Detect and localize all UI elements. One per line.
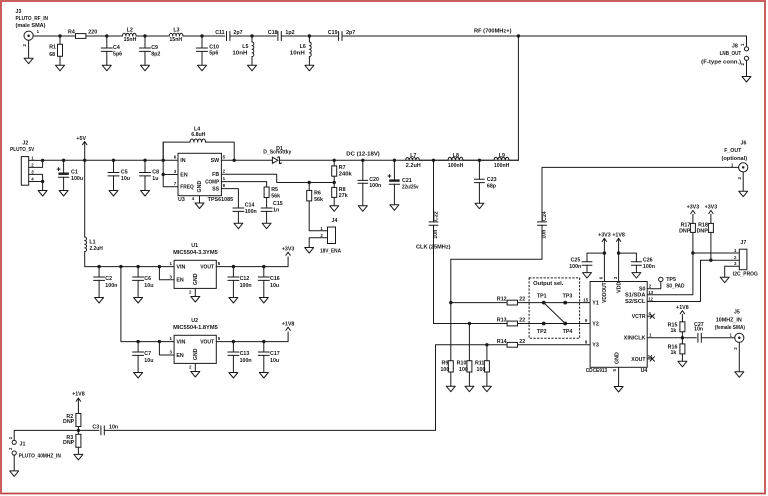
node junction +5V / L1 [83, 159, 86, 162]
svg-text:CLK (25MHz): CLK (25MHz) [416, 245, 451, 251]
svg-text:(female SMA): (female SMA) [715, 325, 745, 331]
svg-text:10n: 10n [109, 424, 118, 430]
wire S2/SCL to J7 pin2 [647, 260, 739, 301]
ground of C21 [390, 205, 399, 211]
connector J5 10MHZ_IN (female SMA) [735, 333, 744, 342]
node junction U2 EN tap [158, 340, 161, 343]
node junction C1 [62, 159, 65, 162]
svg-text:VCTR: VCTR [632, 314, 646, 320]
svg-text:5p6: 5p6 [209, 51, 218, 57]
svg-text:100nH: 100nH [448, 163, 464, 169]
ground of R1 [56, 65, 65, 71]
capacitor C10 5p6 [201, 36, 203, 48]
ground of U2 [191, 363, 200, 377]
capacitor C27 10n (series) [698, 333, 701, 342]
node junction C17 [262, 340, 265, 343]
svg-text:100nH: 100nH [494, 163, 510, 169]
svg-text:C5: C5 [121, 169, 128, 175]
ground of L6 [305, 65, 314, 71]
node junction CLK tap [432, 159, 435, 162]
capacitor C11 2p7 (series) [227, 32, 230, 41]
wire R12 to Y1 pin [518, 302, 591, 304]
svg-text:C11: C11 [215, 30, 224, 36]
power +1V8 at R15 [680, 311, 684, 314]
power +5V [83, 142, 87, 161]
resistor R7 240k [333, 160, 335, 166]
svg-text:Y2: Y2 [592, 321, 599, 327]
svg-text:(F-type conn.): (F-type conn.) [701, 60, 741, 66]
svg-text:COMP: COMP [205, 180, 219, 186]
svg-text:TPS61085: TPS61085 [208, 197, 233, 203]
svg-text:+1V8: +1V8 [72, 392, 85, 398]
resistor R6 56k [308, 183, 310, 191]
svg-text:C2: C2 [105, 276, 112, 282]
svg-text:56k: 56k [314, 197, 323, 203]
connector J3 PLUTO_RF_IN (male SMA) [24, 31, 33, 40]
svg-text:PLUTO_5V: PLUTO_5V [10, 147, 35, 153]
svg-text:XIN/CLK: XIN/CLK [624, 336, 646, 342]
wire Y2 line to R13 [469, 323, 507, 325]
capacitor C26 100n [619, 253, 637, 262]
resistor R8 27k [332, 187, 337, 197]
connector J1 PLUTO_40MHZ_IN [12, 440, 16, 444]
connector J6 F_OUT (optional) [739, 163, 748, 172]
wire L9 to bias node [509, 159, 518, 161]
svg-text:GND: GND [197, 181, 203, 193]
node junction J7 pin1 / R17 [691, 251, 694, 254]
inductor L4 6.8uH over U3 [163, 142, 190, 160]
svg-text:1k: 1k [670, 350, 676, 356]
svg-text:Y1: Y1 [592, 301, 599, 307]
wire L2 to L3 [136, 35, 169, 37]
svg-text:(optional): (optional) [722, 156, 748, 162]
wire J7 pin3 to ground [725, 266, 740, 277]
node junction C6 [136, 265, 139, 268]
resistor R12 22 [507, 300, 517, 305]
capacitor C4 5p6 [106, 36, 108, 48]
svg-text:10n: 10n [694, 327, 703, 333]
svg-text:8p2: 8p2 [151, 51, 160, 57]
connector J2 PLUTO_5V [21, 157, 28, 186]
svg-text:56k: 56k [271, 193, 280, 199]
svg-text:2p7: 2p7 [346, 30, 355, 36]
wire VDDOUT pin [603, 253, 605, 281]
node junction U3 EN [162, 173, 165, 176]
wire RF node down to bias tee rail [517, 36, 519, 160]
node junction C5 [112, 159, 115, 162]
svg-text:+1V8: +1V8 [676, 305, 689, 311]
node junction FB divider [333, 176, 335, 187]
svg-text:PLUTO_40MHZ_IN: PLUTO_40MHZ_IN [19, 454, 61, 460]
capacitor C19 2p7 (series) [339, 32, 342, 41]
svg-text:J6: J6 [741, 140, 747, 146]
power +3V3 from U1 [286, 252, 290, 255]
node junction C25 [603, 251, 606, 254]
node junction Y2 / R10 [468, 322, 471, 325]
wire R10 down [468, 324, 470, 361]
svg-text:L9: L9 [499, 153, 505, 159]
svg-text:100n: 100n [643, 264, 655, 270]
capacitor C23 68p [478, 160, 480, 179]
svg-text:C15: C15 [273, 201, 283, 207]
wire R4 to L2 [86, 35, 123, 37]
wire S0 to TP5 [647, 282, 661, 289]
node junction C12 [232, 265, 235, 268]
svg-text:100n: 100n [245, 209, 257, 215]
capacitor C15 1n [266, 198, 268, 209]
svg-text:TP1: TP1 [537, 294, 547, 300]
wire U2 VOUT rail to +1V8 [216, 332, 288, 342]
capacitor C18 1p2 (series) [278, 32, 281, 41]
capacitor C2 100n [98, 267, 100, 277]
svg-text:L1: L1 [89, 239, 95, 245]
capacitor C7 10u [137, 342, 139, 352]
svg-text:240k: 240k [339, 172, 352, 178]
capacitor C17 10u [263, 342, 265, 352]
svg-text:15nH: 15nH [169, 37, 182, 43]
ground of C26 [632, 273, 641, 279]
svg-text:TP4: TP4 [563, 329, 573, 335]
inductor L2 15nH [123, 33, 137, 36]
svg-text:RF (700MHz+): RF (700MHz+) [474, 28, 512, 34]
wire Y1 line to R12 [451, 302, 507, 304]
resistor R2 DNP [76, 414, 81, 427]
capacitor C6 10u [137, 267, 139, 277]
node junction L6 [308, 34, 311, 37]
svg-text:1n: 1n [273, 207, 279, 213]
svg-text:SW: SW [211, 158, 220, 164]
ground of R3 [74, 447, 83, 460]
svg-text:R5: R5 [271, 187, 278, 193]
svg-text:1p2: 1p2 [285, 30, 294, 36]
svg-text:12: 12 [648, 297, 653, 302]
svg-text:100n: 100n [240, 283, 252, 289]
wire R13 to Y2 pin [518, 323, 591, 325]
svg-text:18V_ENA: 18V_ENA [320, 249, 341, 255]
wire L3 to C11 [183, 35, 225, 37]
svg-text:68: 68 [49, 52, 55, 58]
inductor L9 100nH [494, 157, 509, 160]
ground of J6 [739, 172, 748, 197]
svg-text:10MHZ_IN: 10MHZ_IN [716, 318, 742, 324]
svg-text:J4: J4 [332, 218, 338, 224]
svg-text:C21: C21 [402, 178, 412, 184]
svg-text:27k: 27k [339, 193, 348, 199]
svg-text:220: 220 [88, 29, 97, 35]
wire U1 EN tie [159, 267, 174, 280]
node junction C21 [393, 159, 396, 162]
ground of J2 [38, 182, 47, 197]
svg-text:D_Schottky: D_Schottky [263, 150, 291, 156]
capacitor C21 22u/25v polarized [393, 160, 395, 179]
node junction L5 [250, 34, 253, 37]
capacitor C16 10u [263, 267, 265, 277]
svg-text:+3V3: +3V3 [687, 205, 700, 211]
svg-text:J7: J7 [740, 240, 746, 246]
svg-text:100: 100 [440, 367, 449, 373]
ground of C2 [95, 298, 104, 304]
resistor R18 DNP [708, 223, 713, 232]
svg-text:22: 22 [519, 339, 525, 345]
svg-text:R10: R10 [457, 361, 467, 367]
svg-text:(male SMA): (male SMA) [16, 23, 46, 29]
ground of J3 [24, 40, 33, 63]
node junction C2 [97, 265, 100, 268]
ground of C4 [102, 65, 111, 71]
wire Y3 line from bottom rail [436, 345, 508, 431]
resistor R15 1k [680, 322, 685, 332]
svg-text:LNB_OUT: LNB_OUT [720, 51, 742, 57]
svg-text:TP5: TP5 [666, 277, 676, 283]
svg-text:MIC5504-1.8YM5: MIC5504-1.8YM5 [173, 325, 218, 331]
svg-text:1k: 1k [670, 328, 676, 334]
svg-text:VIN: VIN [176, 265, 185, 271]
svg-text:R12: R12 [497, 296, 507, 302]
wire C27 to J5 [701, 337, 734, 339]
resistor R10 100 [467, 361, 472, 372]
connector J7 I2C_PROG [739, 249, 747, 270]
IC U4 CDCE913 [590, 282, 647, 368]
ground of U4 [614, 367, 623, 392]
IC U2 MIC5504-1.8YM5 [174, 335, 216, 363]
inductor L5 10nH [251, 36, 253, 42]
svg-text:DNP: DNP [697, 228, 709, 234]
dashed box Output sel. [529, 278, 580, 338]
node junction C10 [200, 34, 203, 37]
capacitor C13 100n [232, 342, 234, 352]
power +1V8 at R2 [76, 398, 80, 414]
svg-text:U2: U2 [191, 318, 198, 324]
resistor R5 56k [264, 187, 269, 198]
test point TP3 [563, 301, 567, 305]
wire J4 pin2 to ground [309, 238, 327, 248]
wire jumper TP1-TP4 [544, 303, 566, 324]
svg-text:SS: SS [212, 187, 220, 193]
node junction C7 [136, 340, 139, 343]
resistor R1 68 [58, 44, 63, 56]
svg-text:R14: R14 [497, 339, 507, 345]
svg-text:R6: R6 [314, 190, 321, 196]
svg-text:EN: EN [176, 353, 184, 359]
svg-text:C18: C18 [268, 30, 278, 36]
svg-text:R13: R13 [497, 318, 507, 324]
svg-text:15nH: 15nH [124, 37, 137, 43]
svg-text:100u: 100u [71, 176, 83, 182]
svg-text:XOUT: XOUT [631, 357, 646, 363]
capacitor C20 100n [362, 160, 364, 180]
connector J4 18V_ENA [328, 227, 336, 244]
svg-text:J5: J5 [734, 309, 740, 315]
node junction C26 [617, 251, 620, 254]
node RF (700MHz+) [517, 34, 520, 37]
svg-text:C8: C8 [152, 169, 159, 175]
capacitor C24 10n (series) [538, 222, 547, 225]
svg-text:22u/25v: 22u/25v [402, 184, 419, 190]
wire U3 FB [221, 174, 334, 182]
svg-text:C6: C6 [144, 276, 151, 282]
ground of C1 [59, 191, 68, 197]
wire J1 to C3 [14, 430, 99, 440]
svg-text:2.2uH: 2.2uH [406, 163, 421, 169]
svg-text:VIN: VIN [176, 340, 185, 346]
svg-text:100n: 100n [369, 183, 381, 189]
svg-text:MIC5504-3.3YM5: MIC5504-3.3YM5 [173, 250, 218, 256]
svg-text:L2: L2 [127, 28, 133, 34]
svg-text:100n: 100n [240, 358, 252, 364]
svg-text:R1: R1 [49, 45, 56, 51]
power +3V3 VDDOUT [602, 238, 606, 253]
wire EN tie [163, 142, 178, 187]
svg-text:15: 15 [583, 298, 588, 303]
svg-text:5p6: 5p6 [113, 51, 122, 57]
capacitor C22 10n (series, CLK) [433, 160, 435, 222]
node junction C20 [361, 159, 364, 162]
inductor L6 10nH [308, 36, 310, 42]
capacitor C3 10n (series) [101, 426, 104, 435]
svg-text:C19: C19 [328, 30, 338, 36]
svg-text:EN: EN [180, 172, 188, 178]
svg-text:J3: J3 [16, 9, 22, 15]
IC U3 TPS61085 [178, 153, 221, 195]
connector J8 LNB_OUT (F-type conn.) [744, 47, 748, 51]
svg-text:VDDOUT: VDDOUT [602, 282, 608, 303]
svg-text:10n: 10n [541, 230, 547, 239]
wire S1/SDA to J7 pin1 [647, 232, 693, 294]
svg-text:100n: 100n [105, 283, 117, 289]
svg-text:+3V3: +3V3 [598, 233, 611, 239]
svg-text:S0: S0 [639, 286, 646, 292]
resistor R9 100 [448, 361, 453, 372]
svg-text:PLUTO_RF_IN: PLUTO_RF_IN [16, 16, 49, 22]
svg-text:10u: 10u [121, 176, 130, 182]
svg-text:+3V3: +3V3 [282, 247, 295, 253]
wire D1 to DC rail [280, 159, 519, 161]
wire L8 to L9 [463, 159, 494, 161]
node junction C16 [262, 265, 265, 268]
wire U2 EN tie [159, 342, 174, 355]
wire +5V rail [43, 159, 178, 161]
ground of C20 [358, 206, 367, 212]
wire C18 to C19 [281, 35, 338, 37]
wire XIN/CLK to C27 [647, 337, 696, 339]
svg-text:10u: 10u [270, 283, 279, 289]
wire J3 to R4 [33, 35, 75, 37]
node junction C4 [105, 34, 108, 37]
node junction R15/R16 [681, 336, 684, 339]
svg-text:L6: L6 [300, 44, 306, 50]
svg-text:CDCE913: CDCE913 [586, 368, 608, 374]
node junction C8 [143, 159, 146, 162]
svg-text:100n: 100n [569, 264, 581, 270]
capacitor C9 8p2 [144, 36, 146, 48]
svg-text:10u: 10u [144, 358, 153, 364]
svg-text:22: 22 [519, 318, 525, 324]
svg-text:C1: C1 [71, 169, 78, 175]
svg-text:C23: C23 [487, 177, 497, 183]
ground of R9 [446, 372, 455, 392]
wire L7 to L8 [419, 159, 448, 161]
resistor R11 100 [484, 361, 489, 372]
svg-text:68p: 68p [487, 183, 497, 189]
test point TP2 [542, 322, 546, 326]
ground of J1 [10, 455, 19, 476]
svg-text:J8: J8 [732, 44, 738, 50]
svg-text:C20: C20 [369, 177, 379, 183]
svg-text:TP2: TP2 [537, 329, 547, 335]
svg-text:C3: C3 [92, 424, 99, 430]
svg-text:R11: R11 [475, 361, 484, 367]
ground of C15 [262, 223, 271, 229]
svg-text:S0_PAD: S0_PAD [666, 284, 684, 290]
svg-text:R7: R7 [339, 165, 346, 171]
inductor L8 100nH [448, 157, 463, 160]
wire U3 SW out [221, 159, 272, 161]
svg-text:VDD: VDD [617, 282, 623, 293]
node junction U2 feed [119, 265, 122, 268]
diode D1 D_Schottky [272, 157, 278, 163]
svg-text:C13: C13 [240, 351, 250, 357]
svg-text:DNP: DNP [679, 228, 691, 234]
pin XOUT no-connect [647, 358, 651, 360]
wire C22 to Y2 row [434, 323, 470, 325]
svg-text:10u: 10u [144, 283, 153, 289]
ground of C13 [229, 373, 238, 379]
svg-text:DNP: DNP [63, 419, 75, 425]
wire J2 pin1/pin2 to +5V rail [29, 159, 43, 161]
svg-text:TP3: TP3 [563, 294, 573, 300]
svg-text:VOUT: VOUT [200, 340, 215, 346]
inductor L7 2.2uH [406, 158, 420, 161]
wire C11 to C18 [230, 35, 276, 37]
node junction R7 top [333, 159, 336, 162]
svg-text:R8: R8 [339, 187, 346, 193]
svg-text:C24: C24 [542, 211, 548, 221]
node junction C13 [232, 340, 235, 343]
svg-text:J2: J2 [22, 140, 28, 146]
svg-text:FREQ: FREQ [180, 185, 194, 191]
test point TP5 S0_PAD [659, 277, 663, 281]
ground of C7 [134, 373, 143, 379]
svg-text:GND: GND [193, 348, 199, 360]
svg-text:100: 100 [459, 367, 468, 373]
pin VCTR no-connect [647, 315, 651, 317]
svg-text:L8: L8 [453, 153, 459, 159]
ground of C10 [198, 65, 207, 71]
svg-text:+1V8: +1V8 [612, 233, 625, 239]
inductor L1 2.2uH [84, 160, 86, 237]
power +1V8 VDD [616, 238, 620, 253]
svg-text:S2/SCL: S2/SCL [625, 299, 646, 305]
svg-text:R4: R4 [68, 29, 75, 35]
svg-text:+3V3: +3V3 [705, 205, 718, 211]
resistor R16 1k [681, 338, 683, 344]
ground of L5 [248, 65, 257, 71]
node junction C9 [143, 34, 146, 37]
svg-text:10u: 10u [270, 358, 279, 364]
power +3V3 at R18 [709, 210, 713, 213]
svg-text:C17: C17 [270, 351, 280, 357]
wire J6 line with C24 [542, 167, 739, 221]
svg-text:GND: GND [193, 273, 199, 285]
node junction SW/L4 [233, 159, 236, 162]
ground of C5 [109, 191, 118, 197]
svg-text:C12: C12 [240, 276, 250, 282]
ground of C9 [141, 65, 150, 71]
ground of C8 [141, 191, 150, 197]
svg-text:10nH: 10nH [290, 51, 305, 57]
svg-text:+5V: +5V [76, 136, 86, 142]
power +3V3 at R17 [691, 210, 695, 213]
